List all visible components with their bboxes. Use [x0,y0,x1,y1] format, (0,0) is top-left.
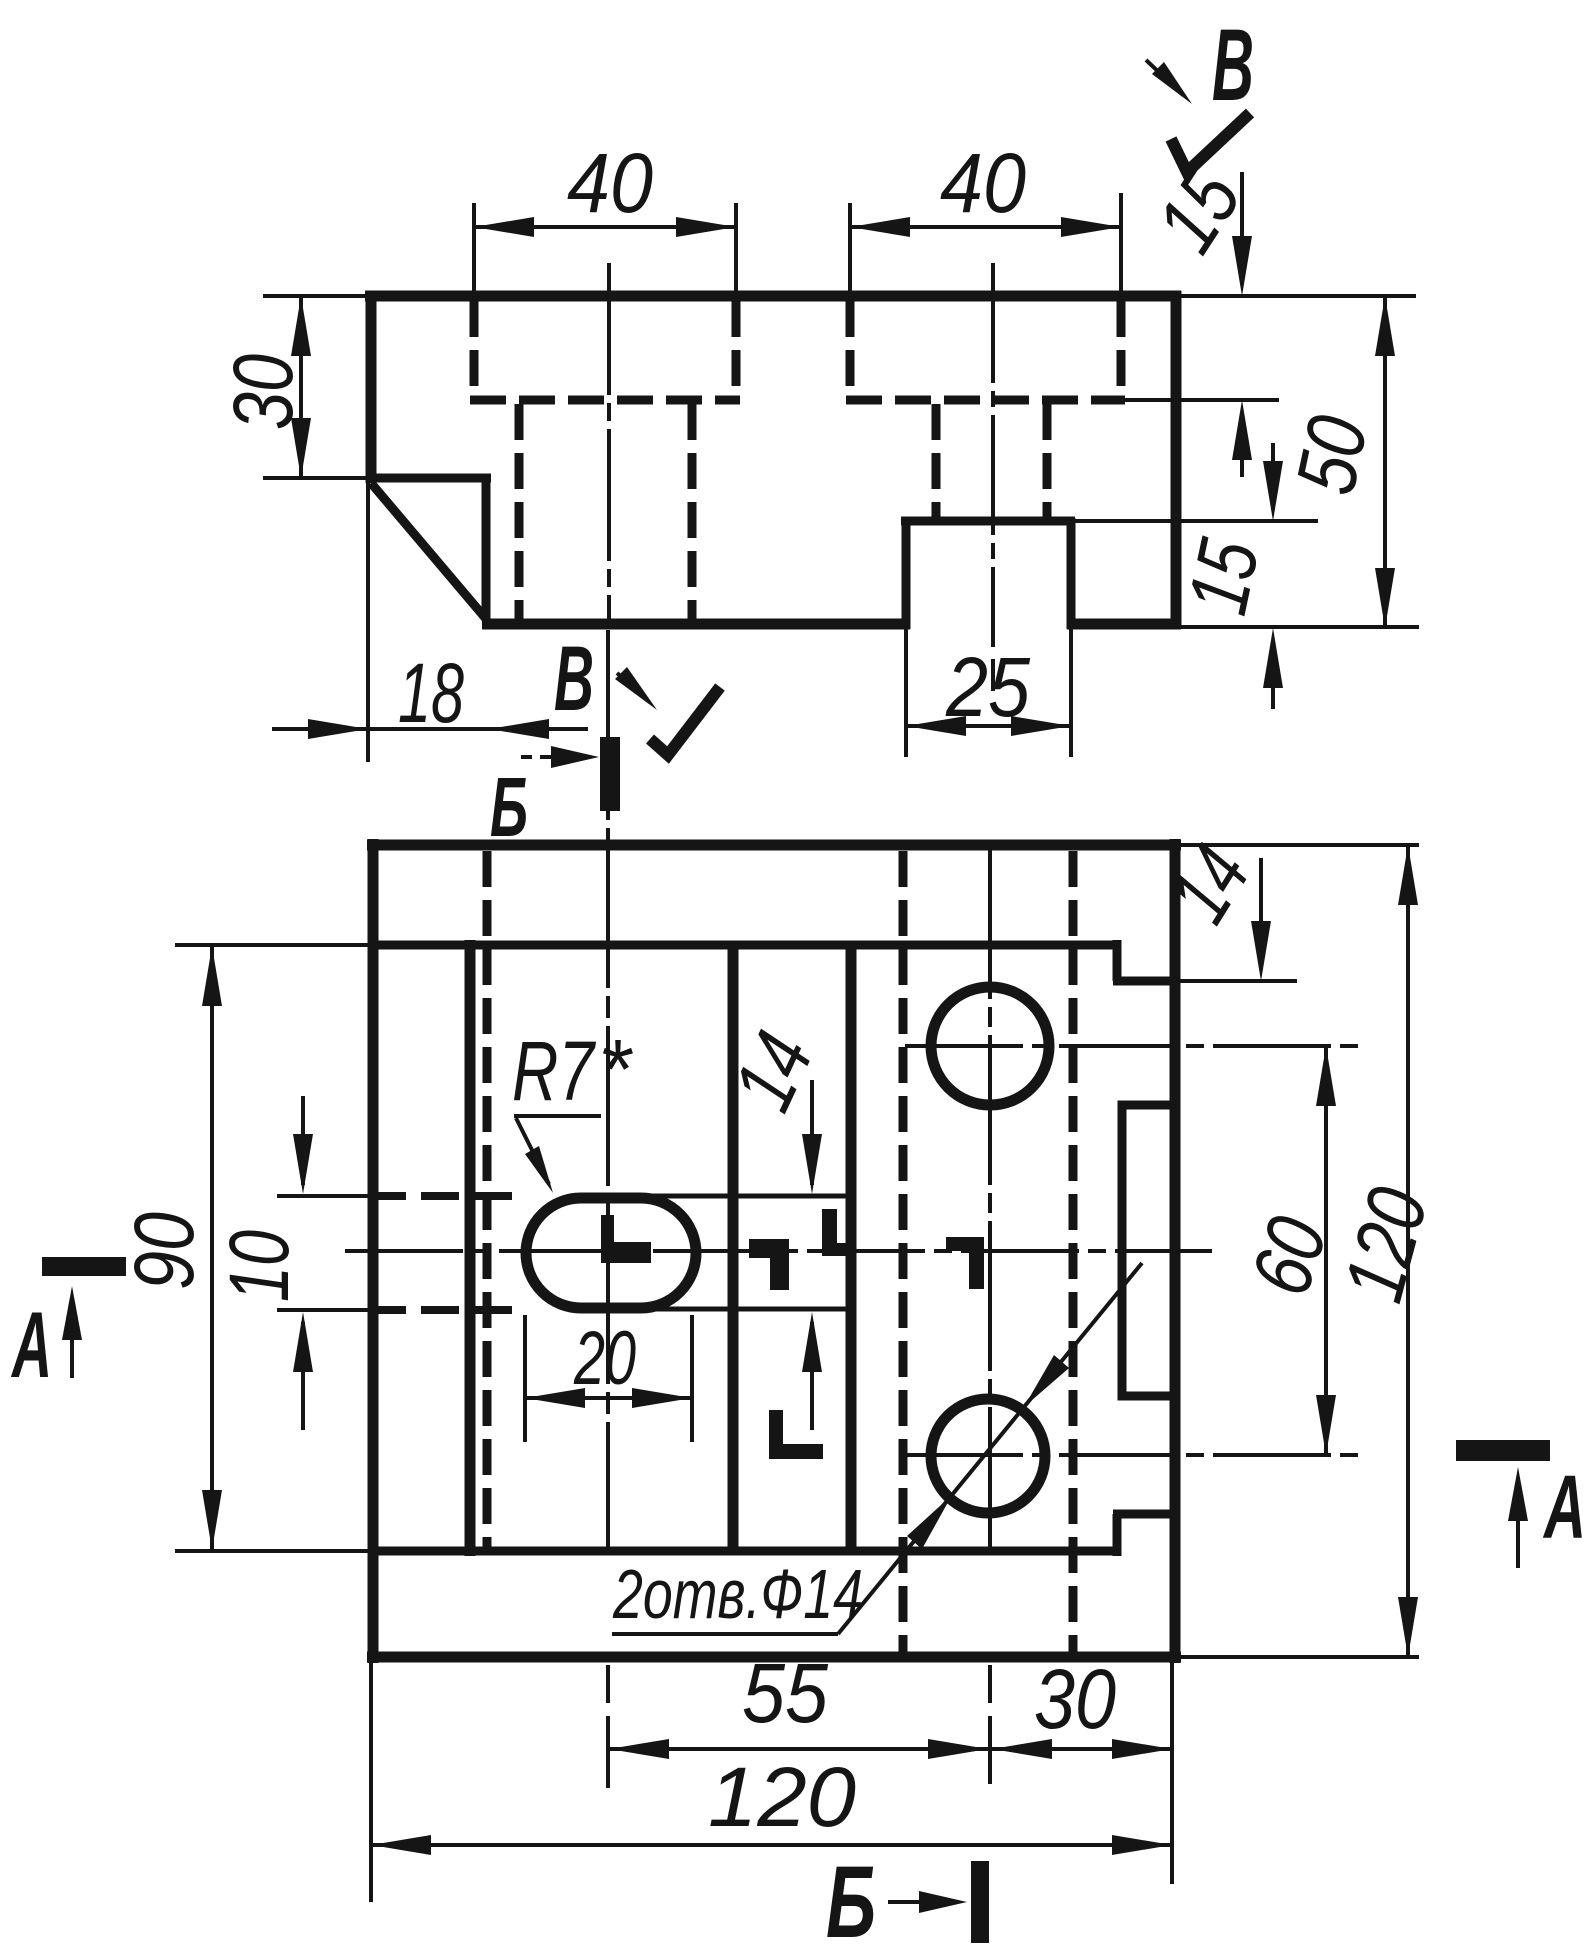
section B top mark: thick bar [600,737,620,811]
extension line x=368 for dim 18 [366,483,370,762]
dim 30 left: arrowheads [291,296,311,478]
inner top step at right [1113,940,1176,981]
top edge right extension [1181,294,1416,298]
step left extension [263,476,368,480]
middle groove right wall [846,945,857,1551]
section trace bend mark D [769,1410,823,1459]
svg-text:А: А [1543,1458,1586,1558]
bottom edge right part [1067,619,1181,630]
inner top edge [373,941,1121,950]
dim 20: dimension line [525,1396,692,1400]
upper hole center line y=1046 [905,1044,1360,1048]
dim 40 right: dimension line [850,225,1121,229]
svg-text:А: А [11,1292,52,1397]
outer top edge [367,840,1181,851]
top edge left extension [263,294,367,298]
lower hole circle [931,1399,1045,1513]
step edge (30 level) [366,474,491,483]
dim 15 right: lower shaft with up arrow [1271,640,1275,709]
section B bottom: thick bar [971,1861,989,1943]
dim 50: dimension line [1383,296,1387,628]
inner bottom left extension (dim 90) [175,1549,373,1553]
hidden T-slot right: outer wall left [846,301,855,399]
lower hole center line y=1455 [905,1453,1360,1457]
hole label: leader line [838,1263,1142,1634]
extension below notch right [1069,629,1073,757]
hidden T-slot right: inner wall left [932,404,941,517]
svg-text:40: 40 [567,136,653,230]
right side slot rectangle [1122,1105,1170,1396]
svg-text:30: 30 [216,354,310,430]
inner bottom step at right [1113,1514,1176,1556]
extension x=1172 [1170,1663,1174,1884]
dim 120 bottom: dimension line [371,1843,1172,1847]
hidden line x=1073 [1069,851,1078,1652]
svg-text:20: 20 [573,1316,636,1401]
dim 90: dimension line [210,946,214,1550]
section A right: arrow [1516,1514,1520,1568]
section trace bend mark C [822,1209,851,1256]
dim 50: arrowheads [1375,296,1395,628]
section A left: thick bar [42,1257,126,1276]
svg-text:10: 10 [212,1230,306,1302]
dim 10 extension bottom [277,1308,368,1312]
svg-text:*: * [598,1022,633,1116]
svg-text:В: В [554,628,594,730]
slot stadium R7 [526,1198,696,1308]
right edge [1171,291,1182,629]
hole label: arrowhead on lower circle edge [907,1495,952,1549]
hole label: underline [612,1632,838,1636]
outer left edge [368,839,379,1663]
left edge [366,291,377,483]
svg-text:2отв.Ф14: 2отв.Ф14 [612,1555,863,1633]
dim 20: arrowheads [525,1388,692,1408]
hidden T-slot left: step [470,396,740,405]
hidden T-slot left: outer wall right [732,301,741,399]
upper hole circle [931,987,1049,1105]
dim 40 left: extension lines [474,203,736,296]
svg-text:В: В [1212,8,1254,122]
section B bottom: arrow [888,1900,934,1904]
dim 10 extension top [277,1194,368,1198]
section A left: arrow [70,1332,74,1378]
dim 40 left: arrowheads [474,217,736,237]
notch left wall [902,518,911,629]
dim 14 middle: lower shaft with up arrow [810,1322,814,1430]
hidden T-slot right: inner wall right [1043,404,1052,517]
dim 90: arrowheads [202,946,222,1550]
section A right: thick bar [1456,1440,1550,1461]
center line left slot x=609 [607,263,611,626]
hidden T-slot right: outer wall right [1117,301,1126,399]
dim 10: lower shaft with up arrow [301,1322,305,1430]
slot visible edge bottom [640,1307,851,1312]
view B mark lower: arrow [617,673,640,694]
hidden T-slot left: outer wall left [470,301,479,399]
dim 30 bottom: dimension line [990,1747,1172,1751]
center line x=608 lower dashes [606,1665,610,1788]
dim 120 right: dimension line [1406,845,1410,1657]
middle groove left wall [728,945,739,1551]
hidden T-slot right: step [846,396,1125,405]
slot visible edge top [640,1194,851,1199]
R7 label: underline [514,1114,601,1118]
dim 60: dimension line [1324,1046,1328,1455]
extension below notch left [904,629,908,757]
dim 10: upper shaft with down arrow [301,1096,305,1185]
dim 14 top-right: extension [1176,979,1297,983]
dim 120 right: arrowheads [1398,845,1418,1657]
dim 15 right: upper shaft with down arrow [1271,443,1275,510]
chamfer vertical edge [482,474,491,621]
horizontal center line y=1251 [345,1249,1212,1253]
top edge [365,291,1181,302]
inner top left extension (dim 90) [175,943,373,947]
svg-text:25: 25 [945,640,1030,734]
dim 15 top-right: lower shaft with up arrow [1240,412,1244,477]
notch right wall [1067,518,1076,629]
dim 55: arrowheads [609,1739,988,1759]
dim 15 top-right: upper shaft with down arrow [1240,172,1244,285]
hidden T-slot left: inner wall right [688,404,697,621]
svg-text:40: 40 [940,136,1026,230]
center line x=990 lower dashes [988,1665,992,1784]
dim 120 bottom: arrowheads [371,1835,1172,1855]
dim 14 top-right: shaft with down arrow [1259,858,1263,970]
hidden line x=487 [483,851,492,1548]
view B mark lower: thick check stroke [650,687,720,755]
notch top right extension [1075,519,1318,523]
view B mark top-right: thick check stroke [1171,113,1250,172]
svg-text:Б: Б [826,1845,876,1944]
center line x=990 [988,849,992,1553]
slot hidden edge bottom left [368,1306,525,1314]
inner bottom edge [373,1547,1121,1556]
section trace bend mark E [946,1237,984,1289]
bottom edge right extension [1181,625,1419,629]
hole label: arrowhead upper [1024,1355,1069,1407]
dim 20: extension lines [525,1315,692,1442]
view B mark top-right: arrow [1146,60,1183,95]
dim 25: dimension line [906,724,1071,728]
section B top mark: arrow [521,755,568,759]
dim 30 left: dimension line [299,296,303,478]
dim 14 middle: upper shaft with down arrow [810,1080,814,1185]
hidden T-slot left: inner wall left [515,404,524,621]
notch top edge [901,517,1075,526]
slot hidden edge top left [368,1192,525,1200]
inner left edge [465,940,476,1556]
dim 18: dimension line [272,727,588,731]
svg-text:R7: R7 [512,1024,596,1118]
bottom edge right extension [1181,1655,1419,1659]
section trace bend mark B [749,1239,789,1290]
dim 18: arrowheads pointing inward [308,719,549,739]
bottom edge left part [482,619,910,630]
center line right slot x=993 [991,263,995,691]
chamfer diagonal [371,483,487,620]
dim 40 right: arrowheads [850,217,1121,237]
svg-text:18: 18 [398,646,464,740]
outer right edge [1170,839,1181,1663]
svg-text:55: 55 [742,1646,828,1740]
section trace bend mark at slot center [601,1215,651,1263]
hidden line x=903 [899,851,908,1652]
outer bottom edge [367,1652,1181,1663]
svg-text:90: 90 [117,1212,211,1290]
svg-text:120: 120 [708,1750,856,1844]
dim 25: arrowheads [906,716,1071,736]
R7 label: leader with arrow [516,1118,549,1184]
top edge right extension [1181,843,1419,847]
dim 60: arrowheads [1316,1046,1336,1455]
extension x=371 [369,1663,373,1902]
dim 40 right: extension lines [850,193,1121,296]
dim 40 left: dimension line [474,225,736,229]
dim 15 top-right: extension of slot step [1121,398,1279,402]
center line x=608 continues through views [606,630,610,1553]
dim 30 bottom: arrowheads [992,1739,1172,1759]
svg-text:30: 30 [1034,1652,1116,1746]
dim 55: dimension line [609,1747,990,1751]
